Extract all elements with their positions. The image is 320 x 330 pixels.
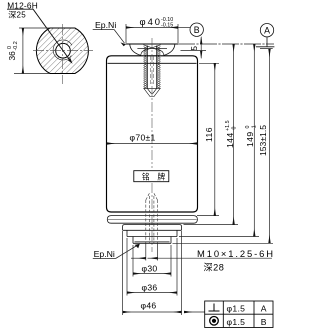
top plane phantom extension bbox=[178, 43, 274, 45]
top cap dome arc right bbox=[164, 44, 175, 55]
end view horizontal centerline bbox=[33, 50, 93, 52]
dim 36 extension line top (flat edge extended) bbox=[19, 27, 50, 29]
dim phi46 bbox=[123, 231, 182, 315]
svg-text:深25: 深25 bbox=[8, 10, 26, 19]
dim phi30 bbox=[133, 245, 171, 277]
Ep.Ni bottom label bbox=[93, 244, 140, 259]
svg-text:φ36: φ36 bbox=[141, 283, 157, 293]
M12 tapped hole chamfer cross bbox=[144, 45, 161, 51]
dim phi70 bbox=[107, 133, 198, 144]
top cap dome arc left bbox=[130, 44, 141, 55]
phi36 section bbox=[123, 230, 182, 236]
svg-text:铭: 铭 bbox=[142, 171, 150, 181]
bottom pill band bbox=[107, 216, 197, 224]
dim 36 vertical dimension line with arrows bbox=[22, 28, 24, 74]
vertical centerline of part bbox=[151, 38, 153, 168]
bottom cap face and chamfer bbox=[133, 242, 171, 243]
svg-text:B: B bbox=[261, 317, 267, 327]
leader from M12 text to hole bbox=[33, 9, 71, 62]
end view vertical centerline bbox=[61, 24, 63, 84]
svg-text:Ep.Ni: Ep.Ni bbox=[95, 20, 116, 30]
svg-text:5: 5 bbox=[190, 46, 199, 51]
perpendicularity symbol bbox=[209, 304, 220, 312]
svg-text:A: A bbox=[264, 26, 270, 36]
dim phi36 bbox=[127, 238, 177, 296]
dim 116 bbox=[197, 63, 219, 215]
feature control frame leader bbox=[184, 311, 205, 313]
phi40 dimension bbox=[126, 16, 178, 43]
Ep.Ni top label bbox=[93, 20, 126, 46]
body outline bbox=[107, 56, 198, 212]
top plane line bbox=[126, 43, 179, 45]
svg-text:0: 0 bbox=[232, 127, 238, 132]
svg-text:φ1.5: φ1.5 bbox=[227, 304, 246, 314]
nameplate box bbox=[134, 171, 169, 182]
top cap small arc left of hole bbox=[141, 50, 146, 55]
svg-text:-0.15: -0.15 bbox=[161, 23, 173, 29]
dim 36 text bbox=[7, 41, 19, 60]
svg-text:153±1.5: 153±1.5 bbox=[258, 125, 268, 156]
hatched flatted-circle of end view bbox=[36, 28, 88, 74]
dim 36 extension line bottom (flat edge extended) bbox=[14, 73, 50, 75]
svg-text:φ40: φ40 bbox=[140, 16, 163, 27]
M12 pilot hole dashed pair bbox=[149, 56, 151, 86]
top cap chord line bbox=[137, 48, 167, 50]
svg-text:φ1.5: φ1.5 bbox=[227, 317, 246, 327]
concentricity symbol bbox=[210, 317, 219, 326]
dim 5 bbox=[181, 37, 207, 58]
phi46 flange bbox=[123, 225, 182, 231]
dim 144 bbox=[184, 44, 239, 225]
svg-text:φ30: φ30 bbox=[141, 264, 157, 274]
dim 149 bbox=[179, 44, 259, 237]
svg-text:-0.2: -0.2 bbox=[13, 41, 19, 50]
svg-text:φ70±1: φ70±1 bbox=[130, 133, 156, 143]
datum B circle bbox=[178, 23, 203, 36]
svg-text:116: 116 bbox=[204, 127, 214, 142]
svg-text:+1.5: +1.5 bbox=[225, 120, 231, 131]
svg-text:36: 36 bbox=[7, 51, 17, 61]
svg-text:M10×1.25-6H: M10×1.25-6H bbox=[197, 248, 275, 259]
bottom pill mid line bbox=[108, 218, 197, 220]
svg-text:A: A bbox=[261, 304, 267, 314]
thread minor circle bbox=[56, 43, 71, 58]
dim 153 bbox=[173, 49, 274, 243]
phi30 section bbox=[133, 237, 171, 244]
svg-text:149: 149 bbox=[245, 131, 255, 147]
svg-text:牌: 牌 bbox=[157, 171, 165, 181]
M12 thread braid band right bbox=[157, 47, 161, 89]
feature control frame bbox=[205, 301, 273, 328]
M12 hole bottom cone bbox=[144, 88, 161, 97]
thread major arc bbox=[53, 40, 72, 60]
body top rim line bbox=[108, 62, 197, 64]
M10 hidden hole dashed walls bbox=[146, 193, 158, 244]
top cap small arc right of hole bbox=[159, 50, 164, 55]
M10 thread callout bbox=[131, 243, 275, 272]
svg-text:Ep.Ni: Ep.Ni bbox=[94, 249, 115, 259]
M12 hole wall lines bbox=[146, 46, 148, 89]
M12 thread braid band left bbox=[144, 47, 148, 89]
svg-text:144: 144 bbox=[225, 132, 235, 148]
svg-text:0: 0 bbox=[245, 126, 251, 131]
datum A circle bbox=[256, 24, 274, 49]
svg-text:φ46: φ46 bbox=[140, 301, 156, 311]
svg-text:-1: -1 bbox=[252, 125, 258, 130]
svg-text:深28: 深28 bbox=[204, 262, 225, 272]
svg-text:B: B bbox=[194, 25, 200, 35]
